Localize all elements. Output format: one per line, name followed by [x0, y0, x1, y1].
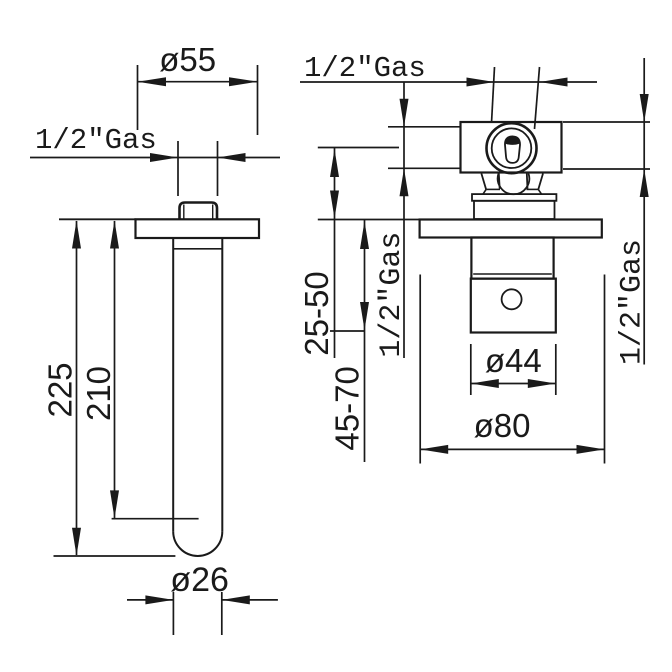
svg-text:ø44: ø44: [485, 342, 542, 379]
valve side pipe line bottom right: [563, 168, 650, 170]
valve stem right leg inner: [526, 174, 529, 189]
arrowhead Ø44 right: [528, 379, 556, 388]
arrowhead valve thread left: [467, 78, 495, 87]
valve lower box: [471, 279, 556, 333]
svg-text:1/2"Gas: 1/2"Gas: [375, 232, 409, 358]
dim 210 line: [114, 221, 116, 518]
valve cartridge outer circle: [487, 123, 537, 173]
valve body ring line: [473, 273, 552, 275]
valve flange: [420, 220, 602, 238]
arrowhead right thread down: [640, 94, 649, 122]
reference line 210: [112, 518, 199, 520]
dim Ø55 dimension line: [138, 81, 258, 83]
arrowhead 25-50 top: [330, 149, 339, 177]
valve stem sphere: [498, 174, 530, 195]
dim Ø55 extension line right: [257, 65, 259, 135]
dim side thread line right: [643, 58, 645, 365]
valve stem right leg bottom: [527, 188, 539, 190]
leader line valve top: [300, 81, 597, 83]
dim 45-70 line: [364, 220, 366, 463]
arrowhead Ø26 left: [145, 595, 173, 604]
dim Ø55 extension line left: [137, 65, 139, 130]
arrowhead right thread up: [640, 169, 649, 197]
arrowhead spout thread left: [150, 153, 178, 162]
dim Ø80 dimension line: [420, 448, 604, 450]
dim Ø26 extension line left: [172, 592, 174, 635]
valve stem right leg outer: [538, 174, 543, 190]
valve side pipe line top left: [388, 126, 461, 128]
extension line valve thread left: [492, 67, 495, 123]
dim Ø26 dimension line right: [222, 599, 278, 601]
valve side pipe line top right: [563, 121, 650, 123]
valve cartridge keyhole cap: [505, 137, 520, 145]
spout flange: [136, 219, 260, 238]
valve stem left leg bottom: [486, 188, 500, 190]
arrowhead Ø55 right: [229, 77, 258, 86]
svg-text:ø55: ø55: [159, 41, 216, 78]
svg-text:1/2"Gas: 1/2"Gas: [35, 124, 157, 157]
svg-text:225: 225: [42, 362, 79, 417]
extension line spout thread right: [217, 141, 219, 196]
svg-text:210: 210: [80, 366, 117, 421]
extension line valve thread right: [535, 67, 540, 129]
dim Ø26 extension line right: [221, 592, 223, 635]
arrowhead side thread down: [400, 99, 409, 127]
spout tube rounded bottom: [173, 531, 222, 556]
extension line spout thread left: [177, 141, 179, 196]
arrowhead valve thread right: [540, 78, 568, 87]
spout collar line: [173, 248, 222, 250]
valve top body: [461, 122, 562, 173]
arrowhead Ø80 left: [420, 445, 448, 454]
dim Ø26 dimension line left: [127, 599, 173, 601]
valve collar plate: [472, 194, 556, 201]
dim side thread line left: [403, 82, 405, 358]
arrowhead 25-50 bottom: [330, 191, 339, 219]
arrowhead 45-70 top: [360, 221, 369, 249]
valve side pipe line bottom left: [388, 167, 461, 169]
arrowhead 225 down: [72, 528, 81, 556]
valve cartridge keyhole: [505, 136, 520, 163]
arrowhead 225 up: [72, 221, 81, 249]
valve stem right flare: [538, 189, 541, 194]
dim Ø80 extension line left: [419, 275, 421, 464]
spout nut: [180, 203, 218, 220]
svg-text:1/2"Gas: 1/2"Gas: [616, 239, 650, 365]
dim Ø80 extension line right: [604, 275, 606, 464]
wall line spout: [59, 218, 136, 220]
arrowhead Ø80 right: [577, 445, 605, 454]
reference line spout end: [54, 555, 176, 557]
arrowhead 210 down: [110, 490, 119, 518]
center reference line: [318, 147, 399, 149]
arrowhead 210 up: [110, 221, 119, 249]
dim Ø44 extension line left: [470, 344, 472, 395]
arrowhead Ø55 left: [138, 77, 167, 86]
valve stem left flare: [483, 189, 486, 194]
arrowhead Ø44 left: [471, 379, 499, 388]
svg-text:ø26: ø26: [170, 561, 229, 599]
spout nut inner line left: [183, 205, 185, 220]
arrowhead 45-70 bottom: [360, 302, 369, 330]
valve threaded body: [471, 238, 553, 279]
spout tube left edge: [172, 238, 174, 531]
arrowhead Ø26 right: [222, 595, 250, 604]
valve stem left leg inner: [498, 174, 501, 189]
dim Ø44 dimension line: [471, 383, 556, 385]
reference tick 45-70: [330, 330, 365, 332]
wall line valve: [318, 219, 420, 221]
spout nut inner line right: [212, 205, 214, 220]
dim 225 line: [76, 221, 78, 555]
dim Ø44 extension line right: [555, 344, 557, 395]
arrowhead side thread up: [400, 168, 409, 196]
svg-text:45-70: 45-70: [329, 366, 366, 450]
leader line 1/2"Gas spout: [30, 157, 280, 159]
valve screw circle: [502, 289, 522, 309]
svg-text:ø80: ø80: [474, 407, 531, 444]
svg-text:1/2"Gas: 1/2"Gas: [304, 52, 426, 85]
svg-text:25-50: 25-50: [298, 271, 335, 355]
spout tube right edge: [221, 238, 223, 531]
valve cartridge inner circle: [492, 128, 532, 168]
valve upper box: [474, 201, 555, 219]
dim 25-50 line: [334, 148, 336, 359]
arrowhead spout thread right: [218, 153, 246, 162]
valve stem left leg outer: [481, 174, 486, 190]
